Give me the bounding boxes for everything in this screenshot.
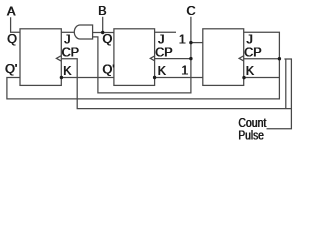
svg-text:C: C (187, 4, 196, 18)
svg-text:K: K (63, 64, 72, 78)
svg-text:A: A (7, 5, 16, 19)
svg-text:Q': Q' (103, 62, 115, 76)
svg-text:CP: CP (244, 46, 262, 60)
svg-text:B: B (98, 4, 106, 18)
svg-text:Q: Q (7, 32, 17, 46)
svg-text:J: J (64, 32, 70, 46)
svg-text:K: K (158, 64, 167, 78)
svg-text:1: 1 (179, 32, 186, 46)
svg-text:CP: CP (155, 46, 173, 60)
svg-text:Q: Q (103, 32, 113, 46)
svg-text:1: 1 (181, 64, 188, 78)
svg-text:Pulse: Pulse (238, 128, 264, 142)
svg-text:K: K (246, 64, 255, 78)
svg-text:CP: CP (62, 46, 80, 60)
svg-text:J: J (247, 32, 253, 46)
svg-text:Q': Q' (5, 62, 17, 76)
svg-text:J: J (158, 32, 164, 46)
